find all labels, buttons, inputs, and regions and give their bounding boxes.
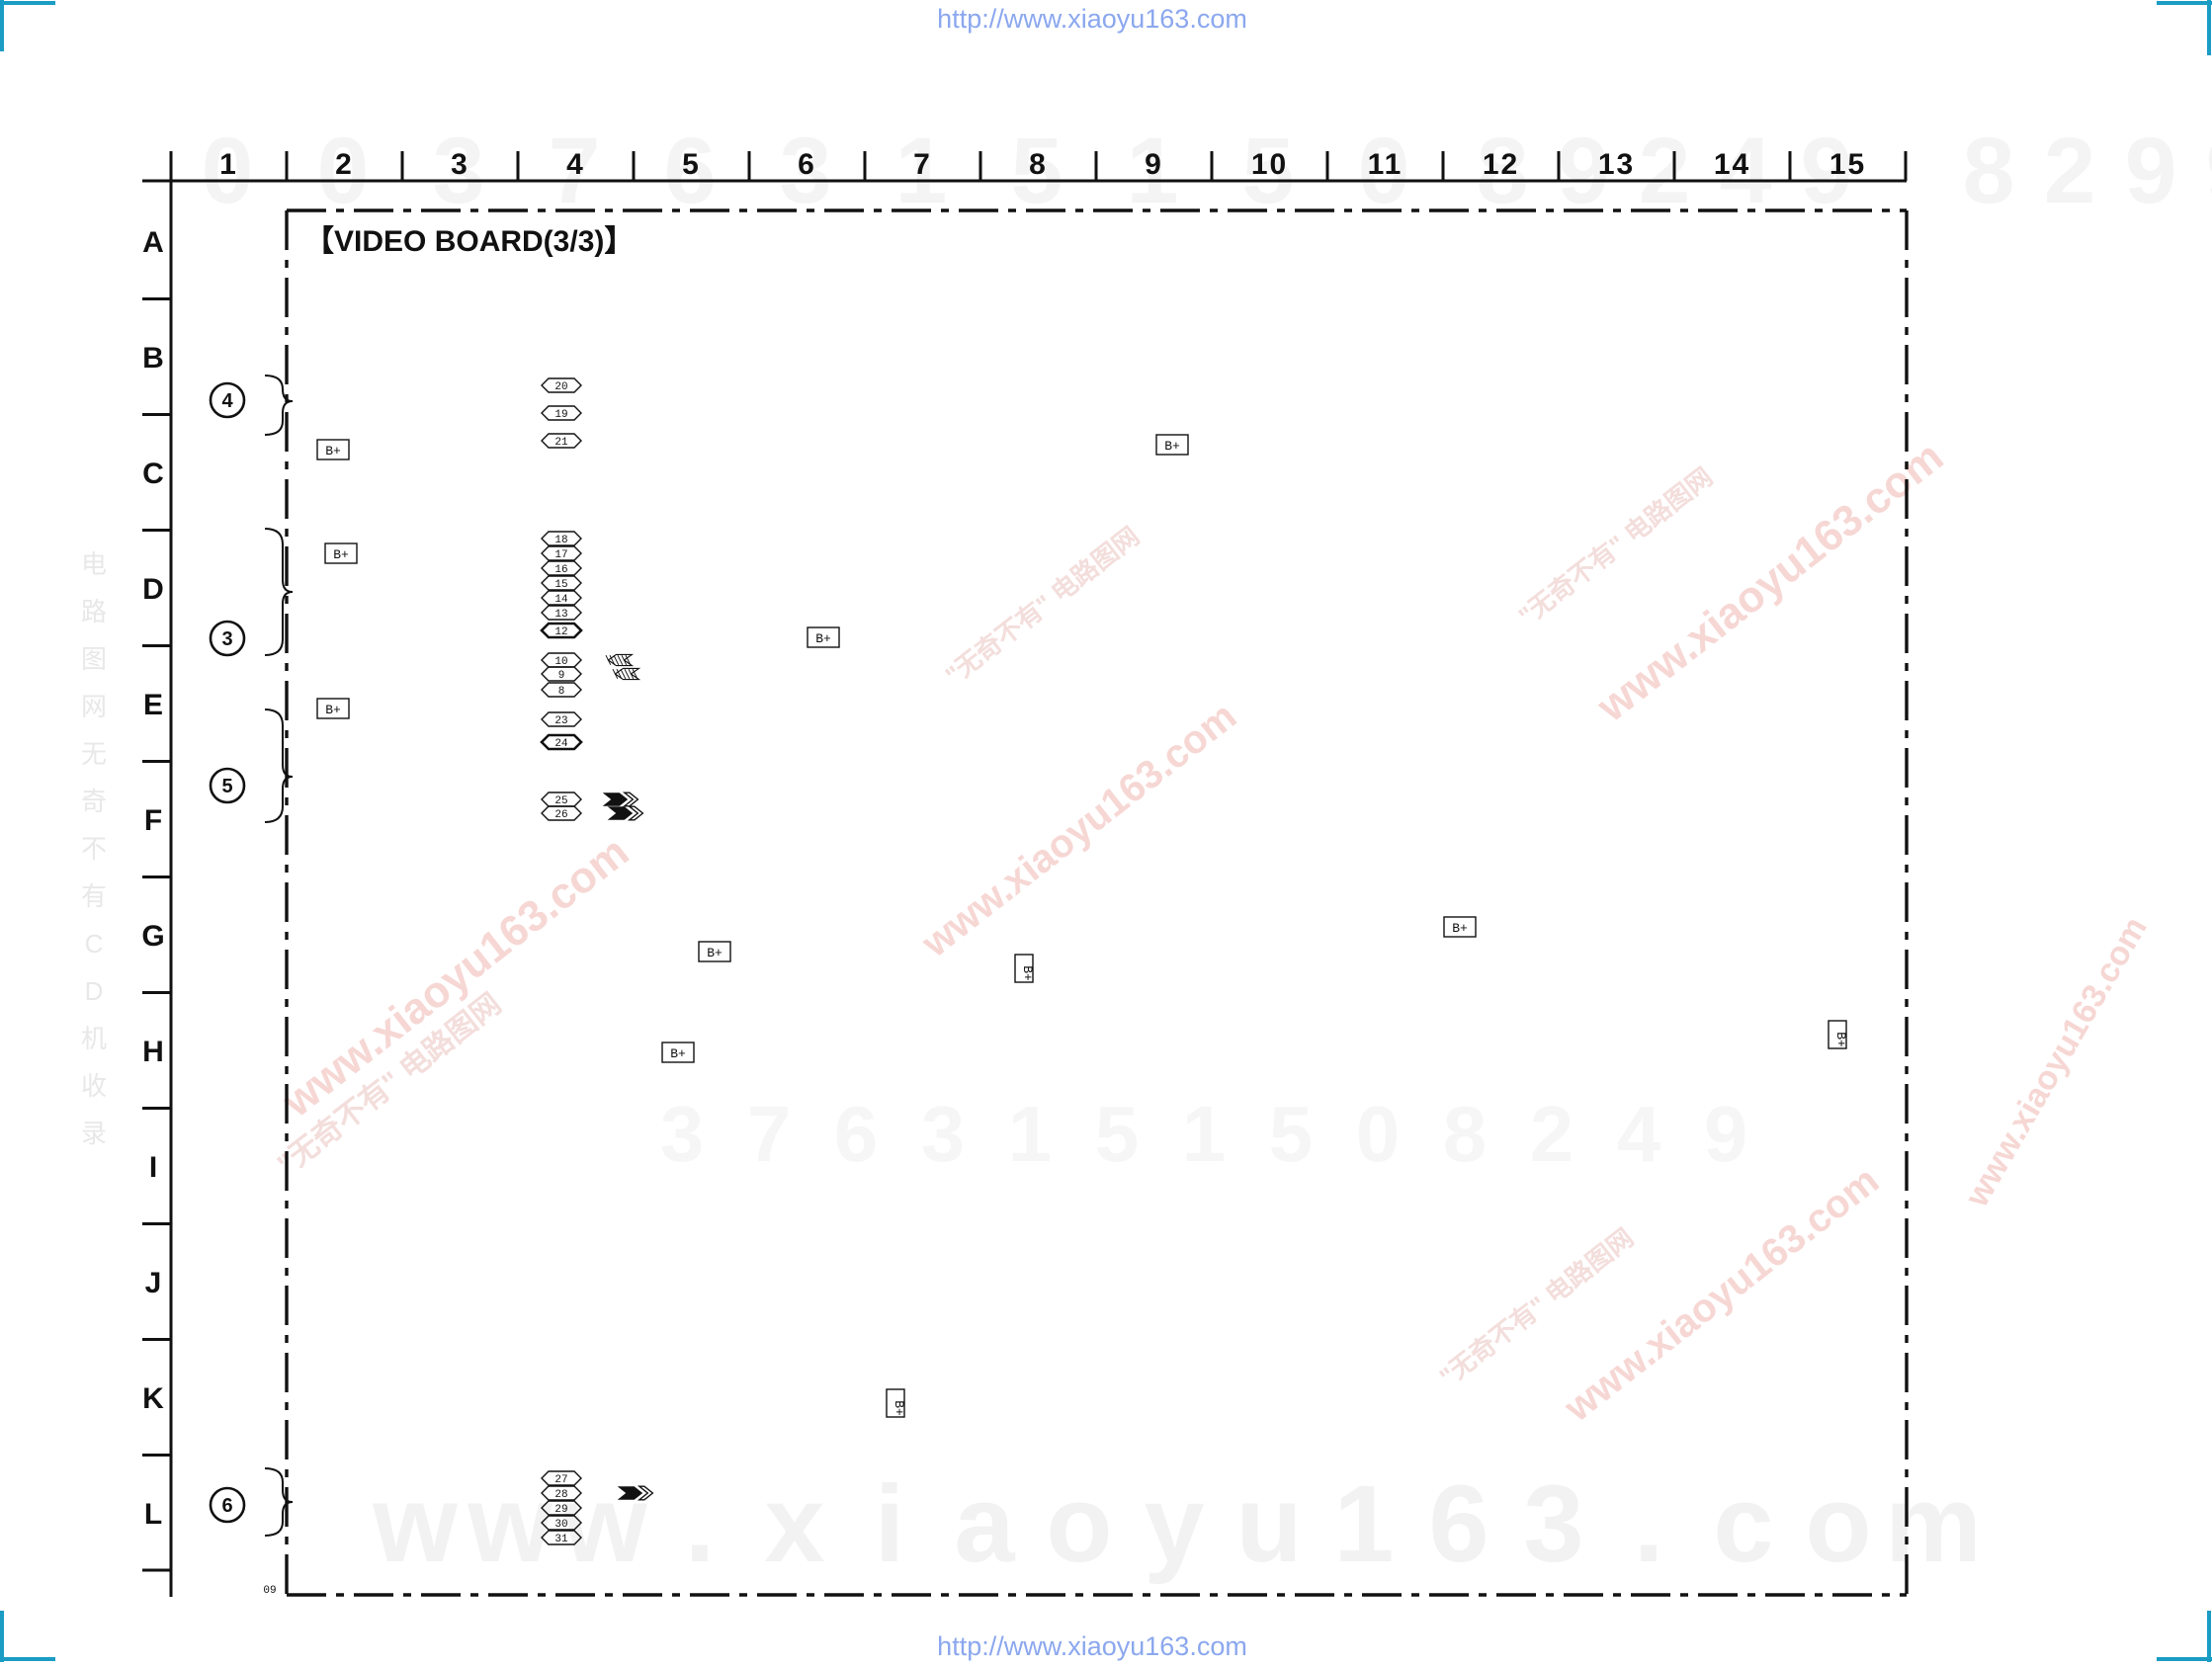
svg-text:5: 5 — [1269, 1090, 1314, 1178]
svg-text:26: 26 — [554, 809, 567, 821]
svg-text:i: i — [875, 1463, 905, 1585]
svg-text:http://www.xiaoyu163.com: http://www.xiaoyu163.com — [937, 4, 1247, 34]
svg-text:B+: B+ — [707, 946, 723, 960]
svg-text:8: 8 — [1443, 1090, 1488, 1178]
svg-text:6: 6 — [1428, 1463, 1489, 1585]
svg-text:.: . — [1634, 1463, 1664, 1585]
svg-text:机: 机 — [81, 1024, 107, 1053]
svg-text:2: 2 — [335, 148, 354, 181]
svg-text:B+: B+ — [1833, 1032, 1848, 1047]
svg-text:17: 17 — [554, 549, 567, 561]
svg-text:11: 11 — [1368, 148, 1404, 181]
svg-text:15: 15 — [554, 579, 567, 591]
svg-text:7: 7 — [913, 148, 932, 181]
svg-text:w: w — [372, 1463, 458, 1585]
svg-text:3: 3 — [1523, 1463, 1583, 1585]
svg-text:6: 6 — [221, 1495, 232, 1517]
svg-text:29: 29 — [554, 1504, 567, 1516]
svg-text:I: I — [149, 1151, 157, 1184]
svg-text:6: 6 — [834, 1090, 879, 1178]
svg-text:B+: B+ — [1164, 439, 1180, 454]
svg-text:1: 1 — [1008, 1090, 1053, 1178]
svg-text:x: x — [764, 1463, 824, 1585]
svg-text:1: 1 — [1333, 1463, 1394, 1585]
svg-text:有: 有 — [81, 881, 107, 911]
svg-text:G: G — [141, 920, 164, 953]
svg-text:收: 收 — [81, 1071, 107, 1101]
svg-text:B+: B+ — [815, 631, 831, 646]
svg-text:A: A — [142, 226, 164, 259]
svg-text:12: 12 — [1483, 148, 1519, 181]
svg-text:16: 16 — [554, 564, 567, 576]
svg-text:E: E — [143, 689, 163, 721]
svg-text:1: 1 — [1182, 1090, 1227, 1178]
svg-text:w: w — [561, 1463, 647, 1585]
svg-text:B+: B+ — [325, 703, 341, 717]
svg-text:o: o — [1046, 1463, 1112, 1585]
svg-text:L: L — [144, 1498, 162, 1531]
svg-text:2: 2 — [2044, 119, 2096, 223]
svg-text:14: 14 — [1714, 148, 1750, 181]
svg-text:B: B — [142, 342, 164, 375]
svg-text:4: 4 — [221, 390, 233, 412]
svg-text:5: 5 — [1095, 1090, 1140, 1178]
svg-text:12: 12 — [554, 626, 567, 638]
svg-text:13: 13 — [1598, 148, 1635, 181]
svg-text:6: 6 — [798, 148, 816, 181]
svg-text:0: 0 — [1356, 1090, 1401, 1178]
svg-text:09: 09 — [263, 1585, 276, 1597]
svg-text:23: 23 — [554, 715, 567, 727]
svg-text:2: 2 — [1530, 1090, 1574, 1178]
svg-text:H: H — [142, 1036, 164, 1068]
svg-text:B+: B+ — [670, 1046, 686, 1061]
svg-text:13: 13 — [554, 609, 567, 621]
svg-text:奇: 奇 — [81, 787, 107, 816]
svg-text:9: 9 — [1145, 148, 1163, 181]
svg-text:20: 20 — [554, 381, 567, 393]
svg-text:21: 21 — [554, 437, 568, 449]
svg-text:o: o — [1805, 1463, 1871, 1585]
svg-text:9: 9 — [1704, 1090, 1748, 1178]
svg-text:8: 8 — [558, 686, 565, 698]
svg-text:u: u — [1235, 1463, 1302, 1585]
svg-text:B+: B+ — [325, 444, 341, 458]
svg-text:5: 5 — [682, 148, 701, 181]
svg-text:5: 5 — [221, 776, 232, 797]
svg-text:31: 31 — [554, 1534, 568, 1545]
svg-text:D: D — [142, 573, 164, 606]
svg-text:K: K — [142, 1382, 164, 1415]
svg-text:9: 9 — [2206, 119, 2212, 223]
svg-text:y: y — [1144, 1463, 1204, 1585]
svg-text:【VIDEO BOARD(3/3)】: 【VIDEO BOARD(3/3)】 — [304, 225, 634, 258]
svg-text:3: 3 — [451, 148, 469, 181]
svg-text:14: 14 — [554, 594, 568, 606]
svg-text:3: 3 — [921, 1090, 966, 1178]
svg-text:25: 25 — [554, 795, 567, 807]
svg-text:9: 9 — [558, 670, 565, 682]
svg-text:9: 9 — [2125, 119, 2177, 223]
svg-text:C: C — [142, 458, 164, 490]
svg-text:C: C — [85, 929, 104, 959]
svg-text:B+: B+ — [1452, 921, 1468, 936]
svg-text:2: 2 — [1639, 119, 1691, 223]
svg-text:.: . — [685, 1463, 716, 1585]
svg-text:8: 8 — [1029, 148, 1048, 181]
svg-text:30: 30 — [554, 1519, 567, 1531]
svg-text:录: 录 — [81, 1119, 107, 1148]
svg-text:19: 19 — [554, 409, 567, 421]
svg-text:28: 28 — [554, 1489, 567, 1501]
svg-text:18: 18 — [554, 535, 567, 546]
svg-text:4: 4 — [566, 148, 585, 181]
svg-text:B+: B+ — [333, 547, 349, 562]
svg-text:电: 电 — [81, 549, 107, 579]
svg-text:3: 3 — [221, 628, 232, 650]
svg-text:无: 无 — [81, 739, 107, 769]
svg-text:4: 4 — [1617, 1090, 1661, 1178]
svg-text:D: D — [85, 976, 104, 1006]
svg-text:图: 图 — [81, 644, 107, 674]
svg-text:10: 10 — [1251, 148, 1288, 181]
svg-text:F: F — [144, 804, 162, 837]
svg-text:http://www.xiaoyu163.com: http://www.xiaoyu163.com — [937, 1631, 1247, 1661]
svg-text:3: 3 — [660, 1090, 705, 1178]
svg-text:w: w — [467, 1463, 553, 1585]
svg-text:1: 1 — [219, 148, 238, 181]
svg-text:27: 27 — [554, 1474, 567, 1486]
svg-text:路: 路 — [81, 597, 107, 626]
svg-text:24: 24 — [554, 738, 568, 750]
svg-text:m: m — [1885, 1463, 1982, 1585]
svg-text:J: J — [145, 1267, 162, 1299]
svg-text:B+: B+ — [892, 1400, 906, 1416]
svg-text:不: 不 — [81, 834, 107, 864]
svg-text:网: 网 — [81, 692, 107, 721]
svg-text:8: 8 — [1963, 119, 2015, 223]
svg-text:7: 7 — [747, 1090, 792, 1178]
svg-text:c: c — [1713, 1463, 1773, 1585]
svg-text:B+: B+ — [1020, 965, 1035, 981]
svg-text:15: 15 — [1829, 148, 1866, 181]
svg-text:10: 10 — [554, 656, 567, 668]
svg-text:a: a — [954, 1463, 1015, 1585]
